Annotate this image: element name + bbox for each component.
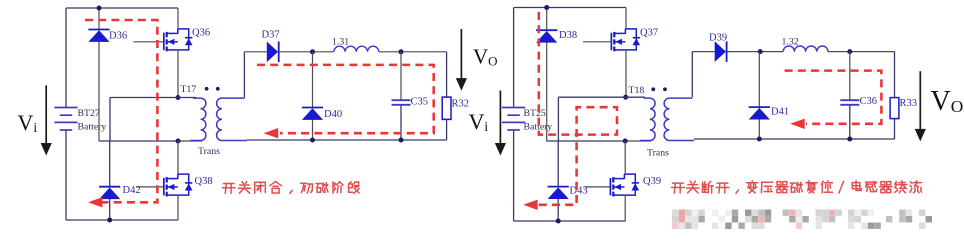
battery BT27 — [54, 108, 77, 131]
wire D42 anode to bottom rail — [109, 198, 111, 220]
transformer T17 phase dot primary — [205, 87, 209, 91]
wire bottom rail left circuit — [66, 219, 178, 221]
caption switch open reset freewheel — [672, 181, 922, 194]
wire C36 bottom plate to output bottom right — [849, 105, 851, 139]
wire output right edge lower — [446, 119, 448, 140]
wire D36 anode down to clamp node — [98, 41, 100, 141]
svg-text:VO: VO — [931, 86, 964, 117]
wire Q36 source down to primary top node — [177, 50, 179, 98]
wire Q39 source to bottom rail right — [624, 195, 626, 221]
junction node Vin+ / D36 — [97, 6, 102, 11]
arrow Vi right — [495, 91, 506, 156]
mosfet Q38 — [164, 174, 193, 196]
wire bottom rail right circuit — [514, 220, 626, 222]
svg-text:VO: VO — [473, 45, 498, 69]
wire D37 cathode to L31 — [279, 51, 333, 53]
mosfet Q39 — [610, 174, 639, 196]
wire right circuit left rail lower — [513, 130, 515, 221]
wire L31 to output right corner — [379, 51, 447, 53]
transformer T17 phase dot secondary — [216, 87, 220, 91]
wire primary top node horizontal — [110, 97, 196, 99]
svg-text:Q37: Q37 — [640, 28, 658, 39]
capacitor C35 — [392, 100, 411, 105]
wire primary top node right — [558, 96, 645, 98]
current path arrow left-bottom — [88, 197, 103, 207]
current path arrow reset left — [523, 200, 538, 210]
arrow Vi left — [41, 85, 52, 155]
svg-text:Battery: Battery — [78, 121, 107, 132]
wire Q37 gate lead — [583, 41, 612, 43]
wire right circuit left rail upper — [513, 8, 515, 108]
current path arrow output left — [264, 128, 279, 138]
svg-text:D36: D36 — [109, 30, 127, 41]
transformer T18 phase dot secondary — [663, 87, 667, 91]
resistor R32 — [442, 97, 451, 119]
wire Q36 drain — [177, 8, 179, 29]
junction C35 bottom — [399, 138, 404, 143]
svg-text:D40: D40 — [324, 109, 342, 120]
svg-text:T18: T18 — [629, 85, 645, 96]
junction C36 bottom — [847, 137, 852, 142]
wire clamp node down to D43 — [557, 141, 559, 187]
svg-text:T17: T17 — [181, 84, 197, 95]
wire clamp node to primary bottom right — [625, 140, 651, 142]
transformer T18 phase dot primary — [651, 87, 655, 91]
wire riser to D39 anode — [692, 51, 714, 53]
current path inductor freewheel loop (dashed) — [785, 71, 882, 124]
svg-text:Q38: Q38 — [195, 176, 213, 187]
transformer T18 primary winding — [640, 98, 655, 140]
wire riser to D37 anode — [244, 51, 266, 53]
svg-text:Q36: Q36 — [192, 28, 210, 39]
wire secondary top riser — [243, 52, 245, 98]
diode D40 — [302, 108, 323, 120]
wire down to D41 cathode — [758, 52, 760, 108]
wire Q37 drain — [625, 8, 627, 30]
svg-text:1.32: 1.32 — [782, 36, 799, 47]
svg-text:D39: D39 — [709, 33, 727, 44]
junction C36 top — [847, 49, 852, 54]
arrow Vo right — [915, 71, 926, 141]
arrow Vo left — [456, 29, 467, 91]
wire Q38 gate lead — [136, 186, 163, 188]
svg-text:BT25: BT25 — [524, 108, 546, 119]
wire L32 to output right corner — [828, 51, 895, 53]
transformer T17 secondary winding — [217, 98, 247, 140]
diode D36 — [88, 30, 109, 42]
wire clamp node right horizontal — [546, 140, 625, 142]
svg-text:D41: D41 — [771, 107, 789, 118]
wire Q39 gate lead — [585, 186, 611, 188]
diode D42 — [99, 187, 120, 199]
wire secondary top riser right — [691, 52, 693, 98]
wire D40 anode to output bottom — [312, 119, 314, 140]
diode D37 — [267, 42, 279, 63]
wire Q39 drain — [624, 141, 626, 174]
wire output bottom rail — [247, 139, 447, 141]
inductor L32 — [783, 46, 828, 52]
wire down to D40 cathode — [312, 52, 314, 108]
current path output loop left (dashed) — [257, 65, 434, 133]
wire clamp node down to D42 — [109, 141, 111, 187]
junction D40 bottom — [310, 138, 315, 143]
wire down to C35 top plate — [400, 52, 402, 100]
wire output right edge upper right circuit — [894, 52, 896, 98]
svg-text:R33: R33 — [900, 98, 918, 109]
wire D39 cathode to L32 — [727, 51, 783, 53]
wire C35 bottom plate to output bottom — [400, 105, 402, 140]
wire output right edge upper — [446, 52, 448, 97]
diode D41 — [749, 107, 770, 119]
svg-text:BT27: BT27 — [78, 108, 100, 119]
wire output right edge lower right circuit — [894, 119, 896, 139]
junction clamp node / Q39 drain — [623, 139, 628, 144]
inductor L31 — [334, 46, 379, 52]
current path transformer reset (dashed) — [536, 12, 617, 205]
wire clamp node to primary bottom — [178, 140, 202, 142]
svg-text:1.31: 1.31 — [332, 37, 349, 48]
junction D42 / bottom rail — [107, 218, 112, 223]
wire D43 anode to bottom rail right — [557, 198, 559, 221]
wire down to C36 top plate — [849, 52, 851, 100]
junction C35 top — [399, 49, 404, 54]
wire Vin+ to D38 cathode — [546, 8, 548, 31]
current path switch-closed loop (dashed) — [85, 20, 157, 202]
wire top rail right circuit — [514, 7, 626, 9]
wire output bottom rail right — [694, 138, 895, 140]
diode D39 — [715, 41, 727, 62]
svg-text:C35: C35 — [411, 97, 429, 108]
junction Vin+ / D38 right — [544, 5, 549, 10]
diode D43 — [548, 187, 569, 199]
battery BT25 — [502, 108, 525, 131]
wire inner vertical right — [557, 97, 559, 141]
junction D41 bottom — [757, 137, 762, 142]
current path arrow freewheel left — [790, 119, 805, 129]
wire Q37 source down — [625, 50, 627, 97]
wire Q36 gate lead — [134, 41, 164, 43]
wire inner vertical to clamp node — [109, 98, 111, 142]
capacitor C36 — [840, 100, 859, 105]
mosfet Q37 — [611, 29, 640, 51]
junction D40 top — [310, 49, 315, 54]
diode D38 — [536, 30, 557, 42]
junction clamp node / Q38 drain — [176, 139, 181, 144]
svg-text:Trans: Trans — [647, 148, 669, 159]
junction Q36 source / primary top — [176, 95, 181, 100]
wire Vin+ to D36 cathode — [98, 8, 100, 30]
junction D43 / bottom rail right — [556, 219, 561, 224]
svg-text:C36: C36 — [860, 96, 878, 107]
wire left rail lower (battery -) — [65, 130, 67, 220]
junction Q37 source / primary top right — [623, 95, 628, 100]
svg-text:Vi: Vi — [18, 110, 38, 135]
transformer T18 secondary winding — [664, 98, 694, 140]
svg-text:Trans: Trans — [198, 146, 220, 157]
wire clamp node horizontal — [99, 140, 178, 142]
wire D38 anode down to clamp node right — [546, 42, 548, 141]
junction D41 top — [758, 49, 763, 54]
wire D41 anode to output bottom right — [758, 119, 760, 139]
svg-text:D38: D38 — [559, 30, 577, 41]
wire left rail upper (battery +) — [65, 8, 67, 108]
transformer T17 primary winding — [190, 98, 206, 140]
mosfet Q36 — [164, 29, 193, 51]
resistor R33 — [890, 98, 899, 119]
svg-text:D37: D37 — [262, 30, 280, 41]
svg-text:R32: R32 — [452, 98, 470, 109]
svg-text:Q39: Q39 — [643, 176, 661, 187]
wire Q38 source to bottom rail — [177, 195, 179, 220]
svg-text:Vi: Vi — [469, 109, 489, 134]
caption switch closed magnetizing phase — [223, 182, 360, 194]
wire top rail left circuit — [66, 7, 178, 9]
watermark mosaic (pixelated) — [672, 210, 932, 229]
wire Q38 drain — [177, 141, 179, 174]
